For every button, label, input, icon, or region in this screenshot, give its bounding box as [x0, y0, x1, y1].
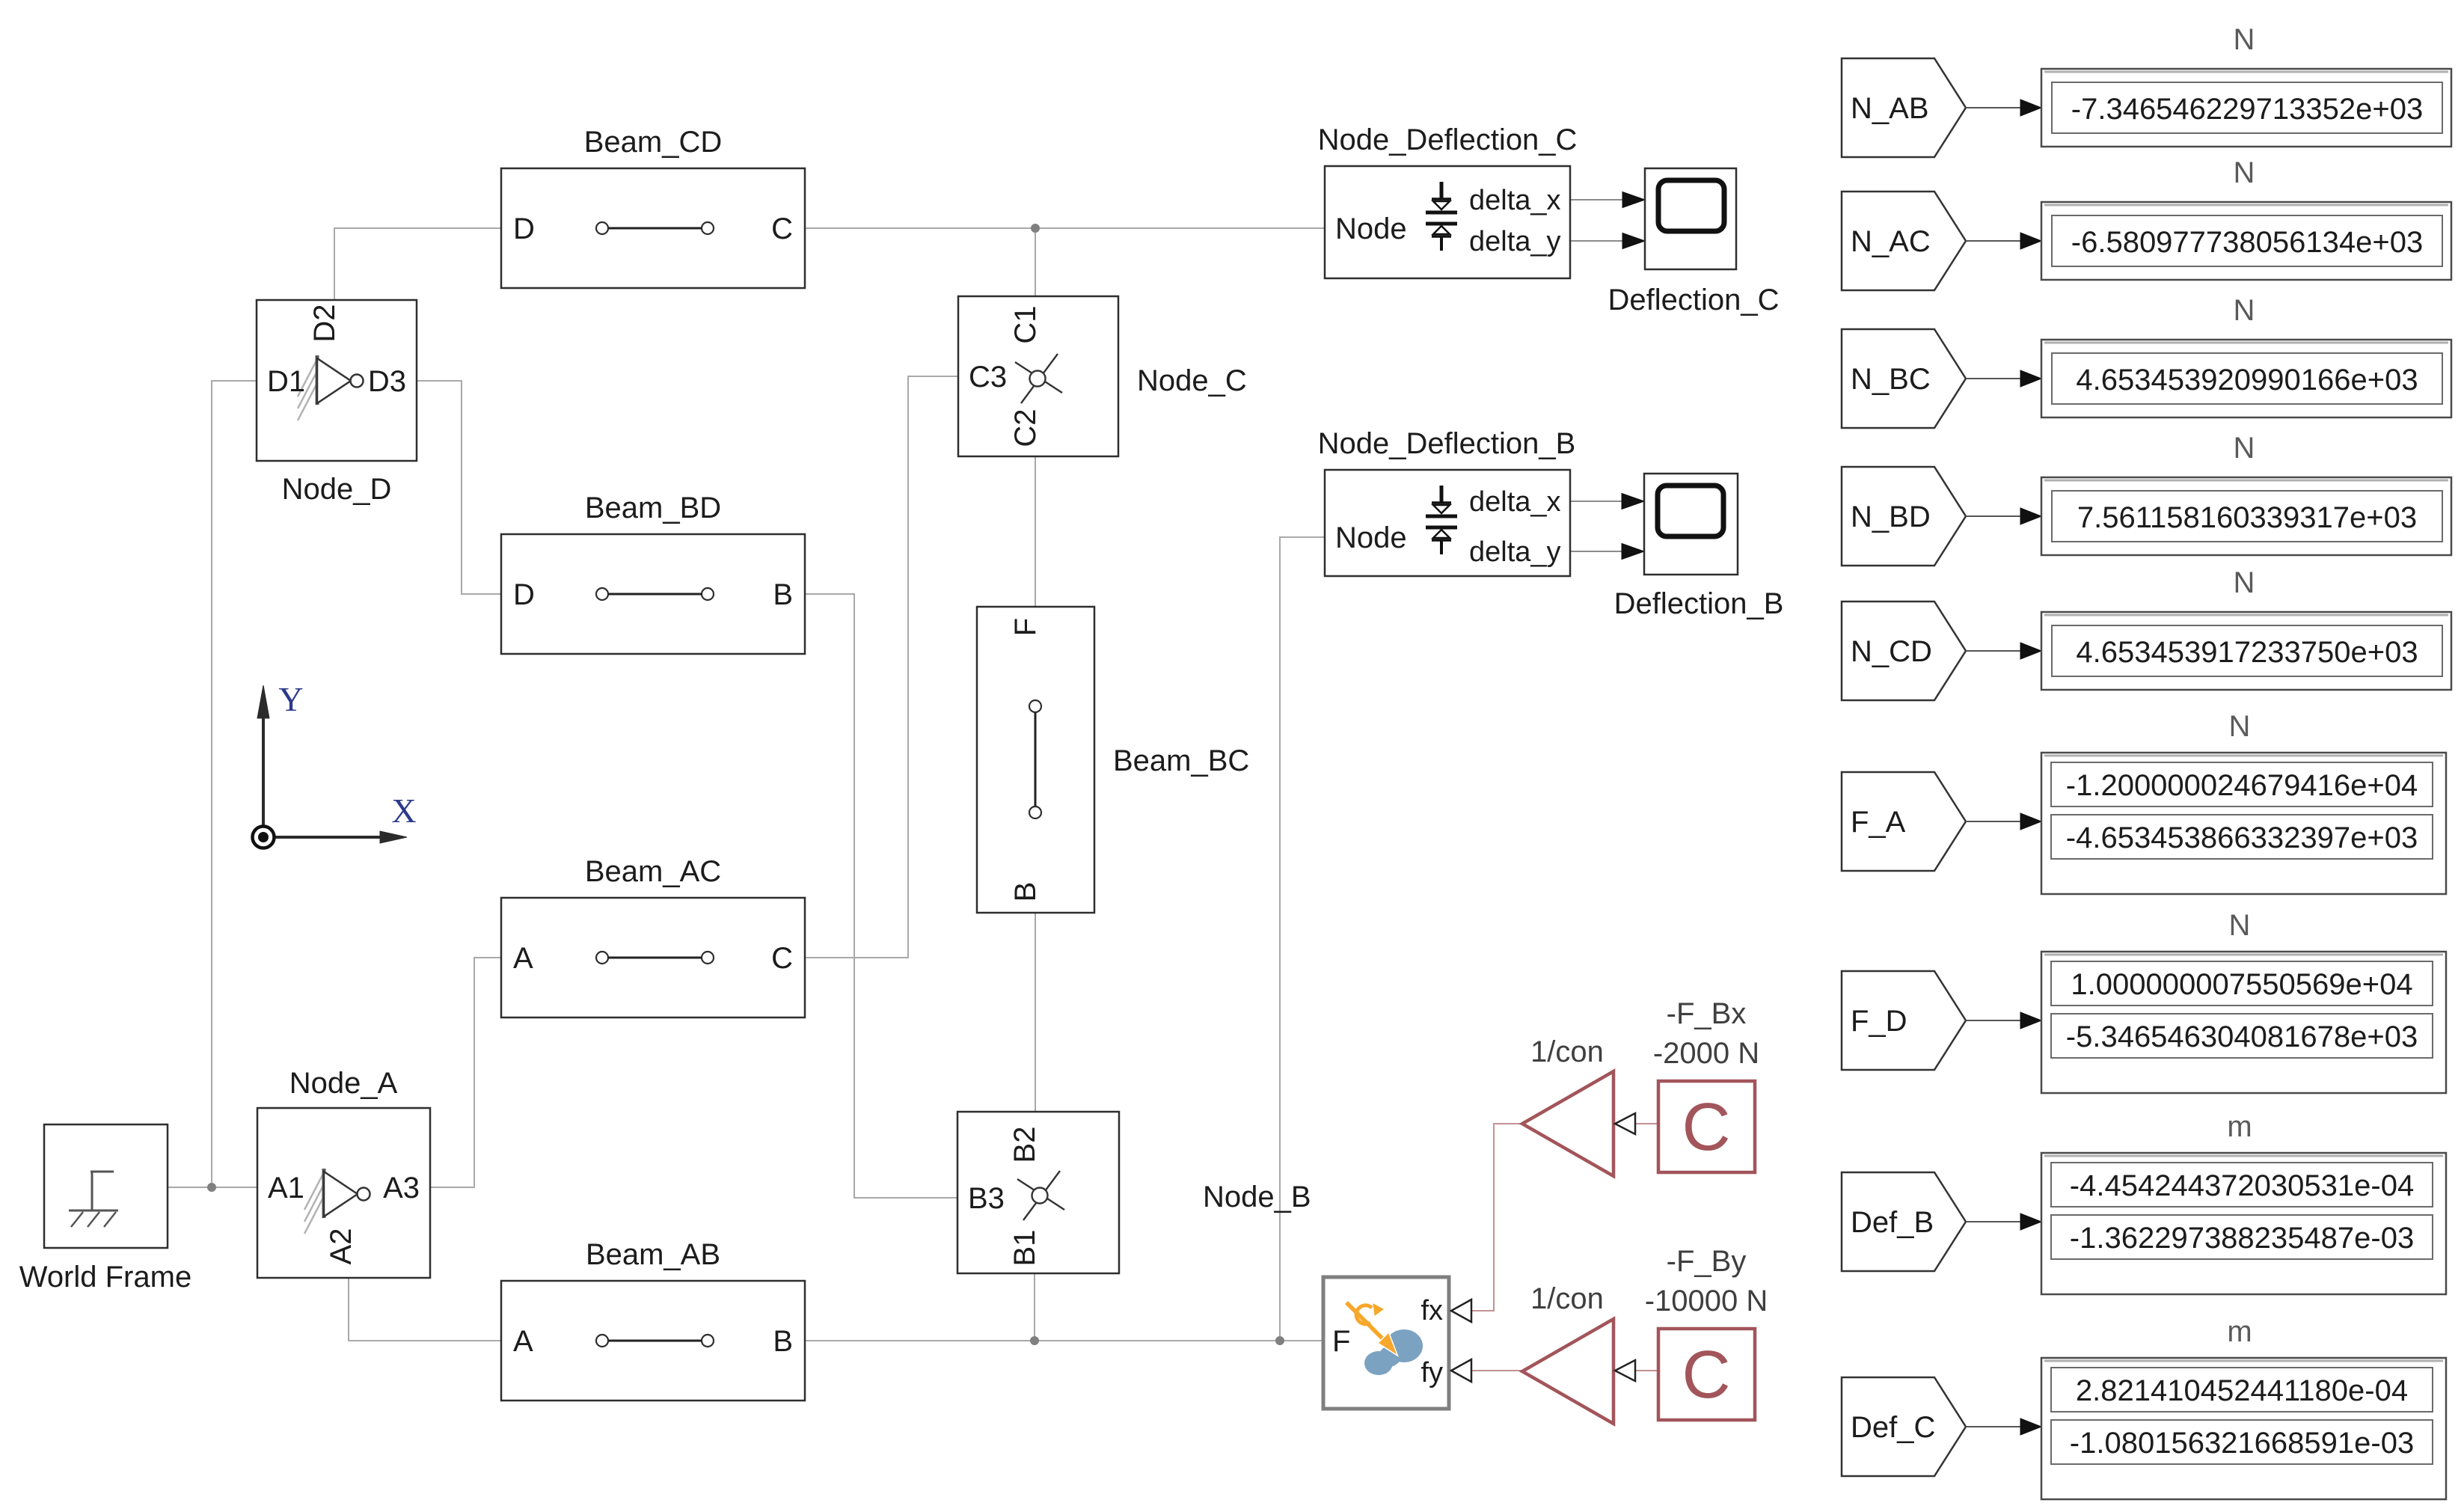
goto tag N_BD	[1842, 467, 1966, 566]
svg-text:D1: D1	[267, 365, 305, 398]
svg-text:Beam_AB: Beam_AB	[586, 1238, 720, 1271]
svg-text:N: N	[2234, 432, 2255, 465]
display block for N_BD	[2041, 477, 2451, 555]
svg-text:1/con: 1/con	[1530, 1035, 1604, 1068]
goto tag N_CD	[1842, 602, 1966, 700]
sensor block Node_Deflection_B	[1325, 470, 1570, 576]
wire delta_x C to scope	[1570, 199, 1625, 201]
deflection icon B	[1426, 486, 1457, 554]
svg-text:B2: B2	[1008, 1127, 1041, 1163]
svg-text:A: A	[513, 1325, 533, 1358]
svg-text:X: X	[391, 792, 416, 830]
joint icon Node_B	[1017, 1171, 1064, 1220]
svg-text:delta_x: delta_x	[1469, 486, 1561, 518]
svg-text:C3: C3	[969, 361, 1007, 394]
display block for F_A	[2041, 753, 2446, 894]
goto tag Def_C	[1842, 1377, 1966, 1476]
svg-text:4.653453920990166e+03: 4.653453920990166e+03	[2076, 364, 2418, 397]
svg-text:N: N	[2234, 566, 2255, 599]
wire World Frame to Node_A A1	[168, 1187, 257, 1188]
beam block Beam_BD	[501, 534, 805, 654]
support icon Node_A	[304, 1169, 370, 1234]
junction dot on C wire	[1031, 224, 1040, 233]
svg-text:A3: A3	[383, 1172, 420, 1205]
display block for N_AB	[2041, 69, 2451, 147]
goto tag F_D	[1842, 971, 1966, 1070]
junction dot force branch	[1275, 1336, 1284, 1345]
wire Beam_BD B to Node_B B3	[805, 594, 957, 1198]
svg-text:Deflection_B: Deflection_B	[1614, 587, 1784, 620]
World Frame block	[44, 1124, 168, 1248]
deflection icon C	[1426, 182, 1457, 251]
svg-text:-1.200000024679416e+04: -1.200000024679416e+04	[2066, 769, 2418, 802]
svg-text:-1.080156321668591e-03: -1.080156321668591e-03	[2070, 1427, 2414, 1460]
svg-text:-2000 N: -2000 N	[1653, 1037, 1759, 1070]
svg-text:1.000000007550569e+04: 1.000000007550569e+04	[2071, 968, 2412, 1001]
svg-text:D2: D2	[308, 304, 341, 342]
input arrowhead fx	[1451, 1300, 1471, 1322]
svg-text:Beam_BC: Beam_BC	[1113, 744, 1249, 777]
svg-text:F: F	[1009, 618, 1042, 636]
svg-text:N_CD: N_CD	[1851, 635, 1932, 668]
svg-text:N: N	[2229, 909, 2251, 942]
goto tag Def_B	[1842, 1172, 1966, 1271]
svg-text:N_BD: N_BD	[1851, 501, 1931, 533]
wire Beam_AC C to Node_C C3	[805, 376, 958, 958]
svg-text:-4.454244372030531e-04: -4.454244372030531e-04	[2070, 1169, 2414, 1202]
svg-text:Node_Deflection_C: Node_Deflection_C	[1318, 123, 1578, 156]
svg-text:N_BC: N_BC	[1851, 363, 1931, 396]
wire delta_x B to scope	[1570, 501, 1624, 502]
svg-text:N: N	[2234, 23, 2255, 56]
svg-text:Def_B: Def_B	[1851, 1206, 1934, 1239]
svg-text:N_AC: N_AC	[1851, 225, 1931, 258]
wire Def_C to display	[1966, 1426, 2023, 1427]
wire Node_D D3 to Beam_BD D	[417, 381, 501, 594]
svg-text:C: C	[1682, 1090, 1731, 1165]
svg-text:C: C	[771, 942, 793, 975]
coordinate frame X axis	[268, 836, 381, 839]
svg-text:Def_C: Def_C	[1851, 1411, 1935, 1444]
svg-text:Node_Deflection_B: Node_Deflection_B	[1318, 427, 1576, 460]
scope block Deflection_B	[1644, 474, 1738, 575]
svg-text:N: N	[2234, 294, 2255, 327]
beam block Beam_AC	[501, 898, 805, 1017]
constant block -F_Bx	[1658, 1081, 1755, 1172]
svg-text:delta_x: delta_x	[1469, 185, 1561, 216]
wire N_BD to display	[1966, 515, 2023, 517]
wire Node_C C2 to Beam_BC F	[1035, 456, 1036, 607]
svg-text:2.821410452441180e-04: 2.821410452441180e-04	[2076, 1374, 2408, 1407]
input arrowhead fy	[1451, 1359, 1471, 1382]
svg-text:Node: Node	[1335, 212, 1407, 245]
svg-text:D: D	[513, 578, 535, 611]
wire branch to Node_C C1	[1035, 228, 1036, 297]
svg-text:Node_C: Node_C	[1137, 364, 1247, 397]
svg-text:N: N	[2234, 156, 2255, 189]
svg-text:-6.580977738056134e+03: -6.580977738056134e+03	[2071, 226, 2423, 259]
svg-text:Node_D: Node_D	[282, 473, 392, 506]
node block Node_A	[257, 1108, 430, 1278]
svg-text:Node_B: Node_B	[1203, 1181, 1311, 1213]
svg-text:A: A	[513, 942, 533, 975]
goto tag N_BC	[1842, 329, 1966, 428]
wire N_AB to display	[1966, 107, 2023, 108]
svg-text:-F_By: -F_By	[1667, 1245, 1747, 1278]
external force block	[1323, 1277, 1449, 1409]
svg-text:F_D: F_D	[1851, 1005, 1907, 1038]
force icon arrow	[1346, 1303, 1383, 1339]
svg-text:N: N	[2229, 710, 2251, 743]
display block for N_BC	[2041, 340, 2451, 417]
wire N_CD to display	[1966, 650, 2023, 652]
svg-text:fx: fx	[1421, 1295, 1443, 1326]
svg-text:Beam_CD: Beam_CD	[584, 126, 723, 159]
svg-text:Beam_AC: Beam_AC	[585, 855, 721, 888]
svg-text:A1: A1	[268, 1172, 304, 1205]
node block Node_D	[257, 300, 417, 461]
svg-text:m: m	[2227, 1110, 2252, 1143]
wire junction to Node_D D1	[212, 381, 257, 1187]
svg-text:delta_y: delta_y	[1469, 226, 1561, 257]
gain block 1/con (fy)	[1522, 1319, 1613, 1424]
beam block Beam_BC	[977, 607, 1094, 913]
wire constant -F_Bx to gain	[1635, 1123, 1658, 1124]
coordinate frame origin	[253, 827, 275, 848]
wire N_AC to display	[1966, 240, 2023, 242]
wire Node_A A2 to Beam_AB A	[349, 1278, 501, 1341]
svg-text:4.653453917233750e+03: 4.653453917233750e+03	[2076, 636, 2418, 669]
goto tag N_AC	[1842, 192, 1966, 290]
force icon swirl	[1356, 1306, 1372, 1324]
wire constant -F_By to gain	[1635, 1370, 1658, 1371]
svg-text:World Frame: World Frame	[19, 1261, 191, 1294]
junction dot at World Frame branch	[207, 1183, 216, 1192]
wire gain 1/con to force fy	[1471, 1370, 1522, 1371]
svg-text:B: B	[1009, 882, 1042, 902]
svg-text:7.561158160339317e+03: 7.561158160339317e+03	[2077, 501, 2417, 534]
gain input arrowhead (fy)	[1615, 1360, 1635, 1381]
beam block Beam_AB	[501, 1281, 805, 1401]
coordinate frame Y axis	[262, 694, 265, 832]
wire Node_B B1 down to main wire	[1034, 1273, 1035, 1341]
svg-text:C: C	[1682, 1338, 1731, 1412]
svg-text:N_AB: N_AB	[1851, 92, 1929, 125]
gain input arrowhead (fx)	[1615, 1113, 1635, 1134]
display block for F_D	[2041, 952, 2446, 1093]
svg-text:C2: C2	[1009, 408, 1042, 447]
wire gain 1/con to force fx	[1471, 1124, 1522, 1311]
wire Def_B to display	[1966, 1221, 2023, 1222]
wire Beam_BC B to Node_B B2	[1035, 913, 1036, 1112]
svg-text:Beam_BD: Beam_BD	[585, 492, 721, 524]
gain block 1/con (fx)	[1522, 1071, 1613, 1176]
svg-text:D: D	[513, 212, 535, 245]
junction dot B1	[1030, 1336, 1039, 1345]
wire up to Node_Deflection_B Node	[1280, 537, 1325, 1341]
svg-text:B3: B3	[968, 1182, 1005, 1215]
node block Node_B	[957, 1112, 1119, 1273]
wire delta_y B to scope	[1570, 551, 1624, 552]
beam block Beam_CD	[501, 168, 805, 288]
svg-text:C: C	[771, 212, 793, 245]
sensor block Node_Deflection_C	[1325, 166, 1570, 278]
svg-text:-5.346546304081678e+03: -5.346546304081678e+03	[2066, 1020, 2418, 1053]
svg-text:Node: Node	[1335, 521, 1407, 554]
svg-text:B: B	[773, 1325, 793, 1358]
svg-text:-10000 N: -10000 N	[1645, 1285, 1768, 1317]
goto tag F_A	[1842, 772, 1966, 871]
wire Node_D D2 to Beam_CD D	[334, 228, 501, 300]
support icon Node_D	[298, 355, 364, 420]
svg-text:C1: C1	[1009, 305, 1042, 343]
wire N_BC to display	[1966, 378, 2023, 379]
svg-text:-F_Bx: -F_Bx	[1667, 997, 1747, 1030]
goto tag N_AB	[1842, 58, 1966, 157]
svg-text:Node_A: Node_A	[289, 1067, 398, 1100]
display block for N_CD	[2041, 612, 2451, 690]
svg-text:1/con: 1/con	[1530, 1282, 1604, 1315]
force icon blob	[1364, 1329, 1423, 1375]
wire F_A to display	[1966, 821, 2023, 822]
wire delta_y C to scope	[1570, 240, 1625, 242]
svg-text:F: F	[1332, 1325, 1350, 1358]
svg-text:delta_y: delta_y	[1469, 536, 1561, 568]
svg-text:B1: B1	[1008, 1230, 1041, 1267]
svg-text:-1.362297388235487e-03: -1.362297388235487e-03	[2070, 1222, 2414, 1255]
svg-text:fy: fy	[1421, 1357, 1443, 1389]
display block for Def_C	[2041, 1358, 2446, 1499]
svg-text:D3: D3	[368, 365, 406, 398]
svg-text:B: B	[773, 578, 793, 611]
svg-text:Deflection_C: Deflection_C	[1608, 284, 1779, 316]
wire F_D to display	[1966, 1020, 2023, 1021]
svg-text:F_A: F_A	[1851, 806, 1906, 839]
scope block Deflection_C	[1645, 168, 1736, 269]
display block for Def_B	[2041, 1153, 2446, 1294]
joint icon Node_C	[1015, 354, 1062, 403]
svg-text:A2: A2	[325, 1228, 358, 1265]
svg-text:-7.346546229713352e+03: -7.346546229713352e+03	[2071, 93, 2423, 126]
node block Node_C	[958, 296, 1118, 456]
display block for N_AC	[2041, 202, 2451, 280]
wire Beam_CD C to Node_Deflection_C Node	[805, 227, 1325, 229]
wire Beam_AB B to force input F	[805, 1340, 1323, 1341]
constant block -F_By	[1658, 1329, 1755, 1420]
svg-text:-4.653453866332397e+03: -4.653453866332397e+03	[2066, 821, 2418, 854]
wire Node_A A3 to Beam_AC A	[430, 958, 501, 1187]
svg-text:m: m	[2227, 1315, 2252, 1348]
svg-text:Y: Y	[278, 680, 303, 718]
